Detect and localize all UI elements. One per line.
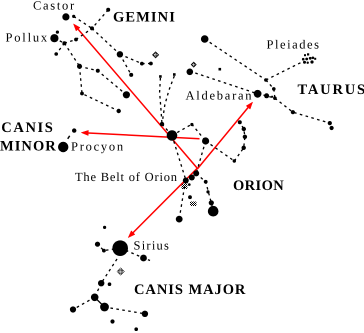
star Gomeisa [72, 128, 76, 132]
svg-text:Procyon: Procyon [71, 140, 125, 154]
star head a [95, 242, 100, 247]
star delta Tau [272, 87, 276, 91]
wire Pollux knot to iota Gem [64, 40, 76, 44]
star lower leg [80, 92, 84, 96]
wire delta Gem leg to xi Gem [80, 66, 119, 111]
star front paw [70, 306, 76, 312]
star Sirius [112, 240, 128, 256]
wire Sirius to head dots [98, 244, 121, 250]
star belt bottom Mintaka [183, 178, 189, 184]
star club base [160, 122, 164, 126]
wire Betelgeuse to belt bottom [172, 136, 186, 181]
wire V upper branch [266, 80, 275, 98]
wire Aldebaran branch [258, 94, 275, 98]
star head b [102, 249, 106, 253]
wire epsilon Gem to mu Gem foot [120, 54, 131, 75]
star shield 5 [233, 159, 236, 162]
svg-text:CANIS MAJOR: CANIS MAJOR [134, 282, 246, 298]
star side dot [204, 180, 208, 184]
star lone square [219, 68, 222, 71]
wire knot to delta Gem [64, 43, 79, 66]
star theta Tau [264, 93, 269, 98]
wire club left [160, 78, 162, 124]
wire belt bottom to Saiph [179, 181, 185, 220]
star Castor companion [72, 15, 75, 18]
wire hip to leg [95, 297, 105, 307]
star hip [91, 294, 99, 302]
wire Betelgeuse to shoulder dot [172, 124, 192, 135]
star kappa Gem [54, 52, 58, 56]
star club tip right (square) [173, 73, 176, 76]
star zeta Gem [96, 69, 100, 73]
star shield 3 [243, 135, 247, 139]
wire shoulder dot to Bellatrix [192, 124, 206, 141]
wire leg to tail [105, 307, 145, 314]
svg-text:TAURUS: TAURUS [298, 82, 364, 98]
wire rho Gem to tau Gem [92, 10, 108, 29]
wire iota Gem to tau Gem [76, 28, 92, 39]
star epsilon Gem [117, 51, 123, 57]
star Castor [62, 13, 69, 20]
star iota Gem [74, 38, 78, 42]
Gemini constellation lines [54, 10, 150, 111]
star Betelgeuse [167, 130, 178, 141]
pointer arrow to Sirius [128, 168, 197, 237]
nebula patch M42 [182, 184, 188, 190]
wire epsilon Gem to feet pair [120, 54, 151, 63]
svg-text:The Belt of Orion: The Belt of Orion [75, 170, 178, 184]
star mu Gem [129, 73, 133, 77]
Orion club stars [159, 68, 221, 78]
pointer arrow to Canis Minor [81, 130, 199, 138]
star tail [142, 311, 148, 317]
wire knot to kappa Gem [56, 43, 64, 54]
Canis Major constellation lines [73, 244, 150, 314]
star lambda Tau [291, 110, 295, 114]
Gemini stars [50, 8, 153, 113]
wire Castor to tau Gem [74, 16, 92, 28]
star Pollux [50, 34, 58, 42]
star zeta Tau [187, 69, 194, 76]
nebula patch sword [190, 202, 197, 207]
wire tau Gem to epsilon Gem [92, 28, 120, 54]
star chest small [108, 282, 112, 286]
star epsilon Tau [264, 78, 268, 82]
wire belt top to Rigel chain [196, 174, 213, 211]
svg-text:ORION: ORION [233, 178, 284, 194]
star belt mid Alnilam [189, 175, 195, 181]
star rho Gem [106, 8, 110, 12]
svg-text:CANIS: CANIS [1, 120, 54, 136]
wire to Pleiades [266, 62, 303, 81]
wire Sirius to muzzle [120, 248, 150, 261]
star leg [100, 303, 109, 312]
star shield 4 [242, 146, 246, 150]
star Aldebaran [254, 90, 262, 98]
star xi Gem [117, 109, 121, 113]
svg-text:MINOR: MINOR [0, 139, 57, 155]
star shield 1 [238, 120, 242, 124]
star leg dot [206, 190, 209, 193]
star xi Tau [328, 121, 332, 125]
Taurus constellation lines [190, 39, 332, 128]
wire head to horn tips [275, 98, 332, 128]
star lone above Sirius [103, 226, 106, 229]
wire Pollux to knot [54, 38, 64, 43]
star shield 2 [242, 127, 246, 131]
star chest [98, 280, 104, 286]
Orion body lines [172, 122, 245, 219]
svg-text:Castor: Castor [33, 0, 76, 13]
star belt top Alnitak [193, 170, 199, 176]
svg-text:GEMINI: GEMINI [113, 10, 176, 26]
Orion stars [160, 120, 247, 222]
cluster diamond in Canis Major [117, 268, 125, 276]
star foot a [140, 62, 144, 66]
star delta Gem [77, 64, 82, 69]
svg-text:Pollux: Pollux [6, 31, 49, 45]
Canis Major stars [70, 226, 148, 331]
pointer arrow to Aldebaran [197, 102, 252, 169]
star tau Gem [90, 26, 94, 30]
star above Pollux [56, 30, 59, 33]
wire club right [162, 76, 174, 124]
wire Bellatrix to belt top [196, 141, 205, 174]
wire Bellatrix to shield bottom [206, 141, 235, 161]
star gamma Gem [123, 91, 130, 98]
wire hip to front paw [73, 297, 95, 309]
star Bellatrix [202, 137, 209, 144]
star knot below Pollux [62, 41, 66, 45]
star Saiph [176, 216, 183, 223]
wire Gomeisa to Procyon [68, 136, 70, 139]
star shoulder dot [190, 123, 193, 126]
star muzzle [140, 255, 147, 262]
star above Rigel [209, 200, 214, 205]
star rear paw a [110, 319, 114, 323]
cluster diamond in Taurus [191, 62, 196, 67]
star gamma Tau [273, 96, 277, 100]
star belt tiny [188, 183, 191, 186]
wire delta Gem to zeta to gamma Gem [80, 66, 127, 95]
wire zeta Tau horn to Aldebaran [190, 71, 258, 94]
wire shield arc [234, 122, 245, 161]
Canis Minor stars [58, 128, 76, 152]
svg-text:Aldebaran: Aldebaran [186, 89, 254, 103]
Taurus stars [187, 35, 334, 130]
wire Sirius to body [101, 259, 117, 283]
star Procyon [58, 142, 68, 152]
star sword dot [188, 195, 192, 199]
star Rigel [208, 206, 219, 217]
wire club to Betelgeuse [162, 124, 172, 135]
star foot b [149, 62, 153, 66]
Orion club lines [160, 76, 175, 136]
cluster diamond in Gemini [153, 52, 159, 58]
star tiny hyades [271, 96, 273, 98]
Pleiades cluster [302, 53, 316, 64]
wire beta Tau horn to V [205, 39, 266, 80]
pointer arrow to Castor [74, 24, 198, 168]
star beta Tau [201, 35, 209, 43]
star club tip left (square) [159, 75, 162, 78]
svg-text:Sirius: Sirius [134, 239, 171, 253]
star omicron Tau [330, 126, 334, 130]
wire body to hip [95, 283, 102, 297]
star rear paw b [134, 327, 138, 331]
svg-text:Pleiades: Pleiades [267, 38, 321, 52]
